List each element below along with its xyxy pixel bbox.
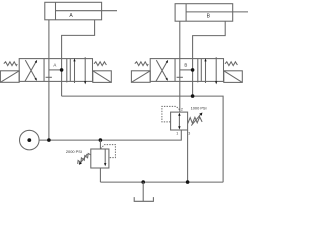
valve V1 blocked port T: [46, 76, 52, 78]
relief valve RV1 internal arrow: [104, 149, 106, 163]
valve V2 right solenoid: [224, 71, 243, 83]
relief valve RV2 pilot dashed: [162, 106, 180, 122]
wire: cylinder A cap port down to pump junction: [48, 20, 50, 140]
relief valve RV2 1000 PSI body: [171, 112, 188, 130]
valve V1 left spring: [4, 62, 17, 66]
wire: valve B internal bend to node: [180, 69, 193, 71]
wire: return line from valve A to right side: [62, 96, 224, 182]
valve V2 body: [150, 59, 223, 82]
node valve B junction dot: [191, 68, 195, 72]
svg-text:1: 1: [176, 132, 178, 136]
svg-text:2: 2: [181, 107, 183, 111]
node valve A junction dot: [60, 68, 64, 72]
cylinder A barrel: [45, 2, 102, 20]
relief valve RV2 adjust arrow: [191, 115, 200, 126]
wire: pressure line pump to relief 1000 port 1: [39, 130, 181, 140]
node tank junction dot: [141, 180, 145, 184]
valve V1 straight arrows: [74, 60, 76, 83]
svg-text:A: A: [53, 62, 56, 67]
wire: cylinder A rod port step to valve A: [62, 20, 95, 96]
relief valve RV2 internal double arrow: [178, 115, 180, 128]
tank T1: [142, 182, 144, 201]
svg-text:1000 PSI: 1000 PSI: [191, 105, 207, 110]
relief valve RV1 spring: [78, 153, 91, 164]
node return line dot: [191, 94, 195, 98]
relief valve RV1 pilot dashed: [101, 145, 116, 158]
wire: bottom return line: [100, 181, 223, 183]
valve V1 body: [19, 59, 92, 82]
valve V1 right spring: [94, 62, 106, 66]
valve V1 crossed arrows: [25, 61, 37, 81]
svg-text:3: 3: [188, 131, 190, 135]
relief valve RV1 top port stub: [99, 140, 101, 149]
node relief 2000 tap dot: [99, 138, 103, 142]
wire: valve A internal bend to node: [49, 69, 62, 71]
svg-text:2000 PSI: 2000 PSI: [66, 149, 82, 154]
cylinder B piston: [185, 4, 187, 22]
node pump junction dot: [47, 138, 51, 142]
cylinder A piston: [55, 2, 57, 20]
svg-text:B: B: [184, 62, 187, 67]
wire: relief RV2 port 3 down: [187, 130, 189, 182]
valve V2 left solenoid: [131, 71, 150, 83]
valve V1 left solenoid: [0, 71, 19, 83]
valve V1 right solenoid: [93, 71, 112, 83]
valve V2 crossed arrows: [156, 61, 168, 81]
relief valve RV2 spring: [188, 117, 202, 124]
valve V2 blocked port T: [177, 76, 183, 78]
cylinder B rod: [186, 11, 248, 13]
relief valve RV1 bottom port stub: [99, 168, 101, 182]
cylinder B barrel: [175, 4, 233, 22]
wire: cylinder B cap port down to relief valve 1000: [179, 21, 181, 112]
relief valve RV1 2000 PSI body: [91, 149, 109, 168]
valve V2 right spring: [225, 62, 237, 66]
valve V2 left spring: [135, 62, 148, 66]
relief valve RV1 adjust arrow: [81, 154, 88, 163]
cylinder A rod: [56, 10, 118, 12]
node relief RV2 port3 dot: [186, 180, 190, 184]
wire: cylinder B rod port step to valve B: [193, 21, 226, 96]
valve V2 straight arrows: [205, 60, 207, 83]
pump P1: [20, 130, 40, 150]
